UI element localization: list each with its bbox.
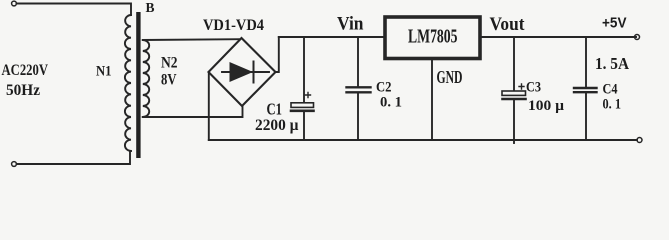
label C2 0.1 [376,80,402,111]
wire: bridge positive output up to Vin rail [276,37,279,72]
label C3 100u [526,80,564,115]
svg-text:N2: N2 [161,55,178,72]
label N2 8V [161,55,178,89]
svg-text:C2: C2 [376,80,392,96]
bridge rectifier VD1-VD4 [209,38,276,106]
svg-text:C4: C4 [603,82,618,98]
svg-text:N1: N1 [96,64,112,80]
wire: bridge negative output down to ground rail [208,73,210,141]
label Vin [337,14,364,35]
wire: Vin rail [279,36,384,38]
svg-text:VD1-VD4: VD1-VD4 [203,17,264,34]
svg-text:1. 5A: 1. 5A [595,54,629,73]
transformer secondary winding N2 [143,40,149,117]
wire: AC line top to primary [17,4,132,16]
label 1.5A [595,54,629,73]
svg-text:GND: GND [437,67,463,87]
svg-text:0. 1: 0. 1 [603,97,622,113]
terminal: +5V output top [635,35,640,40]
label GND [437,67,463,87]
svg-text:LM7805: LM7805 [408,26,458,47]
label C1 2200u [255,100,299,135]
wire: secondary top to bridge top vertex [143,38,240,41]
capacitor C2 0.1 [347,37,371,140]
label AC220V 50Hz [2,62,49,99]
svg-text:0. 1: 0. 1 [380,95,402,111]
svg-text:+5V: +5V [602,15,627,32]
label N1 [96,64,112,80]
label VD1-VD4 [203,17,264,34]
capacitor C4 0.1 [574,37,597,140]
pin GND stem of U1 [431,61,433,140]
terminal: AC input top [12,1,17,6]
svg-text:B: B [146,0,155,15]
svg-text:2200 µ: 2200 µ [255,117,299,134]
terminal: output bottom [637,138,642,143]
capacitor C1 2200u [291,37,314,140]
svg-text:AC220V: AC220V [2,62,49,79]
label B [146,0,155,15]
svg-text:8V: 8V [161,72,177,89]
ground rail bottom [209,139,637,141]
svg-text:Vout: Vout [490,14,526,35]
label Vout [490,14,526,35]
terminal: AC input bottom [12,162,17,167]
wire: secondary bottom to bridge bottom vertex [143,107,243,118]
transformer T primary winding N1 [125,15,131,151]
label +5V [602,15,627,32]
svg-text:C3: C3 [526,80,541,96]
svg-text:C1: C1 [267,100,283,119]
wire: AC line bottom to primary [17,151,131,164]
wire: Vout rail [481,36,636,38]
transformer core [136,12,140,158]
svg-text:Vin: Vin [337,14,364,35]
svg-text:100 µ: 100 µ [528,98,564,114]
label C4 0.1 [603,82,622,113]
capacitor C3 100u [502,37,526,143]
regulator U1 LM7805 [385,17,480,59]
svg-text:50Hz: 50Hz [6,82,40,99]
